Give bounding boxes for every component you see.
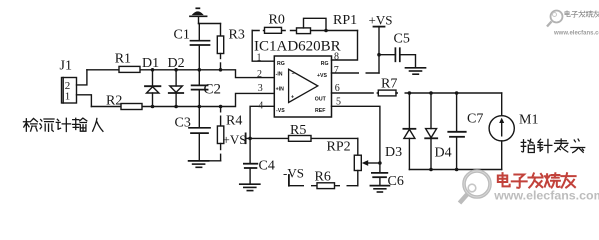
svg-text:RG: RG xyxy=(277,61,285,67)
diode D1 xyxy=(145,70,160,107)
resistor R1 xyxy=(119,66,140,72)
svg-text:3: 3 xyxy=(258,83,263,94)
pin 8 stub and riser xyxy=(332,31,358,61)
wire top input line xyxy=(87,70,274,78)
-VS terminal xyxy=(288,175,290,186)
svg-text:R0: R0 xyxy=(269,13,285,28)
svg-text:-IN: -IN xyxy=(276,71,283,77)
svg-text:R5: R5 xyxy=(290,123,306,138)
svg-text:D4: D4 xyxy=(435,146,452,161)
op-amp IC1 AD620 box xyxy=(274,56,331,117)
potentiometer RP1 xyxy=(297,28,311,34)
wire bottom rail D3..M1 xyxy=(409,169,501,171)
node C5 tap xyxy=(377,53,381,57)
resistor R0 xyxy=(265,27,282,33)
pin 1 net: riser and stub xyxy=(252,31,274,62)
svg-text:1: 1 xyxy=(257,53,262,64)
ground below C5 xyxy=(406,68,426,74)
svg-text:8: 8 xyxy=(334,52,339,63)
svg-text:C7: C7 xyxy=(467,112,483,127)
node wiper-gain junction xyxy=(324,29,328,33)
svg-text:C3: C3 xyxy=(175,116,191,131)
resistor R6 xyxy=(317,183,335,189)
resistor R7 xyxy=(378,90,396,96)
svg-text:+: + xyxy=(291,94,294,100)
svg-text:REF: REF xyxy=(315,108,325,114)
ground top (antenna style, above C1) xyxy=(190,8,207,23)
+VS terminal lower xyxy=(245,133,247,143)
node dots input wires xyxy=(151,68,223,108)
ground below C6 xyxy=(370,186,389,192)
RP2 wiper arrow xyxy=(362,160,380,166)
svg-text:+VS: +VS xyxy=(223,132,247,147)
ground below C3 xyxy=(189,161,209,167)
diode D3 xyxy=(403,93,415,170)
node D4 bottom xyxy=(429,168,433,172)
wire R5 line xyxy=(250,137,358,139)
svg-text:1: 1 xyxy=(65,91,71,103)
svg-text:+VS: +VS xyxy=(369,13,393,28)
capacitor C5 xyxy=(379,48,416,67)
pin 6 output line xyxy=(332,92,379,94)
svg-text:4: 4 xyxy=(258,100,263,111)
gain line R0 RP1 xyxy=(252,30,357,32)
svg-text:D2: D2 xyxy=(168,56,185,71)
node D4 top xyxy=(429,91,433,95)
svg-text:R2: R2 xyxy=(106,94,122,109)
wire J1 pin1 stub xyxy=(77,95,92,107)
wire RP2 bottom to R6 line xyxy=(289,185,358,187)
svg-text:J1: J1 xyxy=(60,59,72,74)
diode D4 xyxy=(425,93,437,170)
svg-text:C1: C1 xyxy=(174,28,190,43)
+VS terminal top xyxy=(374,27,385,73)
svg-text:IC1AD620BR: IC1AD620BR xyxy=(254,39,341,55)
svg-text:RG: RG xyxy=(321,61,329,67)
svg-text:C6: C6 xyxy=(388,174,404,189)
resistor R2 xyxy=(121,104,142,110)
node wiper/pin5/C6 junction xyxy=(378,161,382,165)
wire capacitor column C1/C2/C3 xyxy=(198,24,200,41)
resistor R3 xyxy=(217,24,223,70)
svg-text:R6: R6 xyxy=(315,170,331,185)
wire J1 pin2 stub xyxy=(77,70,87,85)
wire bottom input line xyxy=(91,93,274,106)
CJK label 检流计输入 (galvanometer input) xyxy=(23,118,102,131)
capacitor C1 xyxy=(191,41,210,45)
svg-text:RP2: RP2 xyxy=(327,140,351,155)
svg-text:R7: R7 xyxy=(381,77,397,92)
svg-text:D1: D1 xyxy=(142,56,159,71)
node pin4/R5/C4 junction xyxy=(248,137,252,141)
wire RP1 wiper loop xyxy=(304,18,327,30)
connector J1 xyxy=(62,78,77,104)
resistor R4 xyxy=(199,107,224,161)
potentiometer RP2 xyxy=(354,138,361,185)
svg-text:www.elecfans.com: www.elecfans.com xyxy=(553,31,599,37)
svg-text:R1: R1 xyxy=(115,52,131,67)
meter M1 xyxy=(489,93,514,170)
svg-text:-VS: -VS xyxy=(283,166,304,181)
svg-text:+IN: +IN xyxy=(276,87,284,93)
capacitor C7 xyxy=(448,93,465,170)
svg-text:C5: C5 xyxy=(394,32,410,47)
watermark top-right text 电子发烧友 xyxy=(565,11,599,18)
capacitor C2 xyxy=(192,85,208,89)
node C7 bottom xyxy=(455,168,459,172)
svg-text:R4: R4 xyxy=(226,114,242,129)
wire output rail xyxy=(396,92,502,94)
wire gaps (scan artifacts) xyxy=(221,31,405,186)
node D3 top xyxy=(408,91,412,95)
node C7 top xyxy=(455,91,459,95)
pin 4 stub and riser to +VS node xyxy=(250,106,274,138)
resistor R5 xyxy=(289,136,312,142)
ground below C4 xyxy=(240,184,260,190)
pin 5 stub and riser xyxy=(332,106,380,163)
watermark bottom-right magnifier icon xyxy=(460,171,491,203)
svg-text:RP1: RP1 xyxy=(333,13,357,28)
svg-text:C2: C2 xyxy=(204,82,222,98)
svg-text:C4: C4 xyxy=(259,159,275,174)
watermark top-right magnifier icon xyxy=(547,11,563,27)
CJK label 指针表头 (pointer meter head) xyxy=(521,139,584,153)
op-amp triangle xyxy=(289,69,318,102)
svg-text:+VS: +VS xyxy=(317,73,327,79)
svg-text:6: 6 xyxy=(335,83,340,94)
pin 7 stub to +VS riser xyxy=(332,72,380,74)
svg-text:2: 2 xyxy=(257,69,262,80)
svg-text:M1: M1 xyxy=(519,113,538,128)
capacitor C4 xyxy=(244,138,257,184)
svg-text:7: 7 xyxy=(334,65,339,76)
svg-text:−: − xyxy=(292,71,295,77)
watermark bottom-right text 电子发烧友 (red) xyxy=(499,174,577,189)
capacitor C3 xyxy=(189,128,210,133)
svg-text:www.elecfans.com: www.elecfans.com xyxy=(493,189,599,203)
svg-text:OUT: OUT xyxy=(315,97,327,103)
svg-text:-VS: -VS xyxy=(276,108,285,114)
svg-text:5: 5 xyxy=(336,97,341,108)
svg-text:R3: R3 xyxy=(229,28,245,43)
capacitor C6 xyxy=(372,163,387,185)
wire ground to R3 xyxy=(199,23,221,25)
svg-text:D3: D3 xyxy=(385,145,402,160)
diode D2 xyxy=(169,70,183,107)
